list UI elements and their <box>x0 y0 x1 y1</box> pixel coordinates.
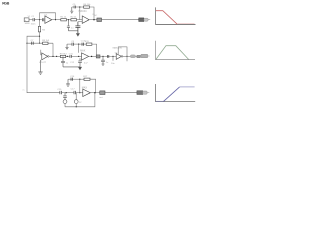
svg-text:100n: 100n <box>31 23 37 25</box>
capacitor C4 to rail <box>67 20 78 31</box>
svg-text:MAX44: MAX44 <box>79 10 88 13</box>
wire <box>89 55 97 57</box>
wire stub below <box>112 56 114 60</box>
capacitor C2 <box>42 18 43 21</box>
probe comp row2 <box>130 55 135 58</box>
ground stub feedback row2 <box>65 44 68 49</box>
svg-text:RGB: RGB <box>2 1 10 5</box>
node junction <box>79 92 80 93</box>
node junction <box>78 44 79 45</box>
plot2 green curve <box>156 46 189 60</box>
node junction <box>102 56 103 57</box>
ground arrow <box>78 67 82 70</box>
node junction <box>39 36 40 37</box>
wire stub below <box>126 56 128 61</box>
svg-text:MAX: MAX <box>80 49 86 52</box>
op-amp U2 <box>82 16 89 24</box>
capacitor C15 <box>60 91 62 94</box>
resistor R1 <box>61 19 67 21</box>
wire <box>72 6 74 8</box>
capacitor C9 <box>72 43 73 46</box>
resistor R9 <box>60 55 65 57</box>
wire feedback to output <box>90 7 95 20</box>
wire <box>66 55 70 57</box>
resistor R2 <box>71 19 77 21</box>
op-amp U3 <box>42 53 48 60</box>
wire <box>35 19 42 21</box>
probe label B <box>137 91 143 95</box>
resistor R6 <box>84 6 90 8</box>
capacitor C8 series <box>107 55 108 58</box>
wire <box>89 19 97 21</box>
wire <box>49 55 60 57</box>
plot1 axes <box>156 7 196 24</box>
plot2 axes <box>156 41 195 60</box>
op-amp U4 <box>82 53 89 60</box>
ground stub top cluster <box>70 7 73 13</box>
capacitor C7 <box>32 42 34 45</box>
wire inverting drop <box>78 44 80 53</box>
node junction <box>78 56 79 57</box>
svg-text:R9 8k2: R9 8k2 <box>60 54 68 56</box>
node A junction <box>39 19 40 20</box>
source circle 1 <box>63 93 67 100</box>
capacitor C1 <box>33 18 35 21</box>
left rail to row3 <box>27 43 60 92</box>
probe label G <box>137 55 140 58</box>
wire inverting input drop <box>79 7 81 20</box>
svg-text:MAX: MAX <box>82 87 88 90</box>
node junction <box>68 19 69 20</box>
wire feedback to output <box>90 79 96 93</box>
svg-text:SINE: SINE <box>25 23 31 25</box>
wire feedback row2 <box>67 43 72 45</box>
node junction <box>56 56 57 57</box>
wire <box>71 55 81 57</box>
wire row2 input <box>27 42 53 44</box>
capacitor C17 <box>74 91 75 94</box>
svg-text:R6 10k: R6 10k <box>83 4 91 6</box>
wire <box>52 19 61 21</box>
node junction <box>79 79 80 80</box>
wire feedback row3 <box>68 78 84 80</box>
op-amp U1 <box>45 16 52 24</box>
capacitor C12 to ground <box>78 58 82 67</box>
wire <box>90 92 99 94</box>
wire <box>123 55 137 57</box>
wire <box>77 19 83 21</box>
svg-text:R1 1k: R1 1k <box>60 17 67 19</box>
wire bottom loop <box>65 93 95 107</box>
probe label R <box>139 18 144 22</box>
ground stub feedback row3 <box>66 79 70 86</box>
capacitor C11 to ground <box>61 56 80 67</box>
source circle 2 <box>75 93 77 100</box>
ground under U3 <box>38 60 42 74</box>
svg-text:SC: SC <box>94 15 97 17</box>
node junction <box>66 92 67 93</box>
wire inverting drop <box>79 79 81 93</box>
voltage source V1 <box>24 18 29 22</box>
capacitor C5 <box>74 6 75 9</box>
wire <box>76 6 84 8</box>
capacitor C14 to ground <box>101 56 105 65</box>
svg-text:R8 1k3: R8 1k3 <box>42 40 50 42</box>
op-amp U6 <box>83 89 91 96</box>
plot3 blue curve <box>156 100 164 102</box>
wire long row1 <box>102 19 139 21</box>
feedback wire U1 <box>40 13 56 20</box>
capacitor C6 <box>75 22 80 34</box>
small box row2 <box>96 55 100 58</box>
wire op-amp input stub <box>41 50 42 55</box>
plot3 axes <box>156 84 196 102</box>
node junction <box>26 43 27 44</box>
resistor R11 <box>86 43 92 45</box>
resistor R17 <box>84 78 90 80</box>
output box row3 <box>100 91 105 95</box>
wire <box>29 19 33 21</box>
node junction output <box>91 56 92 57</box>
wire <box>66 19 71 21</box>
capacitor C10 <box>70 55 71 58</box>
resistor R8 <box>43 42 48 44</box>
node junction <box>67 56 68 57</box>
wire <box>62 92 75 94</box>
node junction <box>126 56 127 57</box>
feedback wire U5 <box>118 47 127 57</box>
node junction <box>112 56 113 57</box>
wire <box>73 43 86 45</box>
node junction output <box>93 19 94 20</box>
svg-text:LT1077: LT1077 <box>39 62 47 64</box>
capacitor C13 <box>82 43 83 46</box>
node junction <box>39 43 40 44</box>
wire long row3 <box>105 92 137 94</box>
svg-text:R2 1k: R2 1k <box>71 17 78 19</box>
node junction output <box>94 92 96 94</box>
resistor R4 vertical <box>39 20 41 27</box>
ground arrow <box>76 33 80 36</box>
node junction <box>76 106 77 107</box>
node junction <box>79 6 80 7</box>
wire <box>75 92 82 94</box>
wire <box>100 55 116 57</box>
svg-text:out: out <box>99 96 102 99</box>
wire feedback to output <box>92 44 97 56</box>
capacitor C16 <box>71 78 72 81</box>
node junction <box>55 19 56 20</box>
plot1 red curve <box>156 11 177 25</box>
wire branch to left rail <box>27 36 40 43</box>
op-amp U5 buffer <box>116 54 121 60</box>
wire feedback drop <box>52 43 54 56</box>
node junction <box>52 56 53 57</box>
